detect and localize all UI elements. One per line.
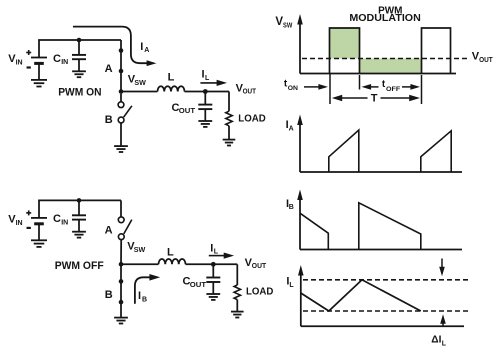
svg-text:L: L	[442, 340, 447, 347]
svg-text:I: I	[138, 290, 141, 302]
svg-text:L: L	[205, 75, 210, 82]
svg-text:C: C	[53, 53, 61, 65]
svg-text:SW: SW	[134, 247, 146, 254]
svg-text:I: I	[210, 242, 213, 254]
svg-text:OUT: OUT	[243, 89, 257, 96]
svg-text:OUT: OUT	[479, 57, 493, 64]
svg-text:B: B	[142, 297, 147, 304]
svg-text:ON: ON	[288, 85, 298, 92]
svg-text:IN: IN	[61, 59, 68, 66]
svg-text:LOAD: LOAD	[238, 114, 265, 125]
svg-text:T: T	[371, 92, 378, 104]
svg-text:SW: SW	[134, 80, 146, 87]
svg-text:OUT: OUT	[190, 282, 207, 289]
svg-text:A: A	[105, 63, 113, 75]
svg-text:B: B	[105, 114, 113, 126]
svg-text:A: A	[144, 47, 149, 54]
svg-text:IN: IN	[61, 220, 68, 227]
svg-text:IN: IN	[16, 220, 23, 227]
svg-text:PWM ON: PWM ON	[58, 87, 101, 99]
svg-text:LOAD: LOAD	[246, 287, 273, 298]
svg-text:L: L	[289, 282, 294, 289]
svg-text:ΔI: ΔI	[431, 335, 441, 346]
svg-text:I: I	[140, 41, 143, 53]
svg-text:B: B	[289, 204, 294, 211]
svg-text:A: A	[289, 125, 294, 132]
svg-text:MODULATION: MODULATION	[349, 13, 420, 24]
svg-text:SW: SW	[283, 22, 293, 29]
svg-text:B: B	[105, 289, 113, 301]
svg-text:C: C	[53, 213, 61, 225]
svg-text:A: A	[105, 225, 113, 237]
svg-text:OUT: OUT	[179, 108, 196, 115]
svg-text:OUT: OUT	[252, 263, 267, 270]
svg-text:L: L	[167, 246, 174, 258]
svg-text:PWM OFF: PWM OFF	[55, 260, 104, 272]
svg-text:OFF: OFF	[386, 86, 400, 93]
svg-text:IN: IN	[16, 59, 23, 66]
svg-text:L: L	[168, 71, 175, 83]
svg-text:L: L	[214, 249, 219, 256]
